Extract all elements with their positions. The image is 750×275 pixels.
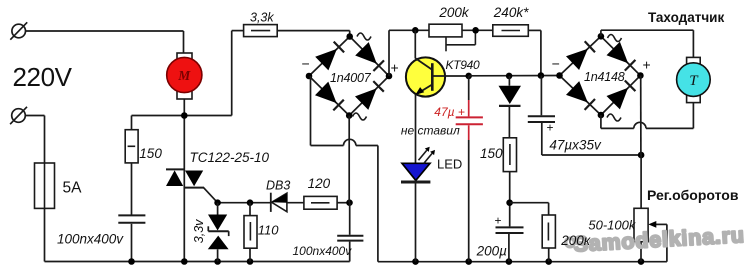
svg-text:47µx35v: 47µx35v <box>549 138 602 153</box>
svg-text:200к: 200к <box>560 233 591 248</box>
svg-text:50-100k: 50-100k <box>588 218 636 233</box>
svg-text:M: M <box>177 68 191 83</box>
svg-text:200k: 200k <box>438 5 470 20</box>
svg-text:3,3v: 3,3v <box>192 219 206 243</box>
svg-text:1n4148: 1n4148 <box>584 70 625 84</box>
svg-text:150: 150 <box>139 146 162 161</box>
svg-text:+: + <box>643 57 651 73</box>
svg-text:150: 150 <box>480 146 503 161</box>
svg-text:KT940: KT940 <box>446 58 480 72</box>
svg-text:LED: LED <box>437 157 462 172</box>
svg-text:+: + <box>547 121 554 135</box>
svg-text:240k*: 240k* <box>493 5 529 20</box>
svg-text:Рег.оборотов: Рег.оборотов <box>647 187 739 203</box>
svg-text:3,3k: 3,3k <box>250 11 274 25</box>
svg-text:47µ +: 47µ + <box>434 105 465 119</box>
svg-text:1n4007: 1n4007 <box>330 71 372 85</box>
svg-text:−: − <box>552 56 560 72</box>
svg-text:100nx400v: 100nx400v <box>57 232 124 247</box>
svg-text:−: − <box>302 55 310 71</box>
svg-text:Таходатчик: Таходатчик <box>648 10 724 25</box>
svg-text:100nx400v: 100nx400v <box>293 244 353 258</box>
svg-text:110: 110 <box>258 223 279 238</box>
svg-text:не ставил: не ставил <box>401 124 460 138</box>
svg-text:+: + <box>495 214 502 228</box>
svg-text:TC122-25-10: TC122-25-10 <box>190 150 270 165</box>
svg-text:120: 120 <box>308 176 331 191</box>
svg-text:200µ: 200µ <box>476 244 508 259</box>
svg-text:5A: 5A <box>63 180 83 197</box>
svg-text:220V: 220V <box>13 62 73 92</box>
svg-text:DB3: DB3 <box>266 179 290 193</box>
svg-text:+: + <box>391 60 399 76</box>
